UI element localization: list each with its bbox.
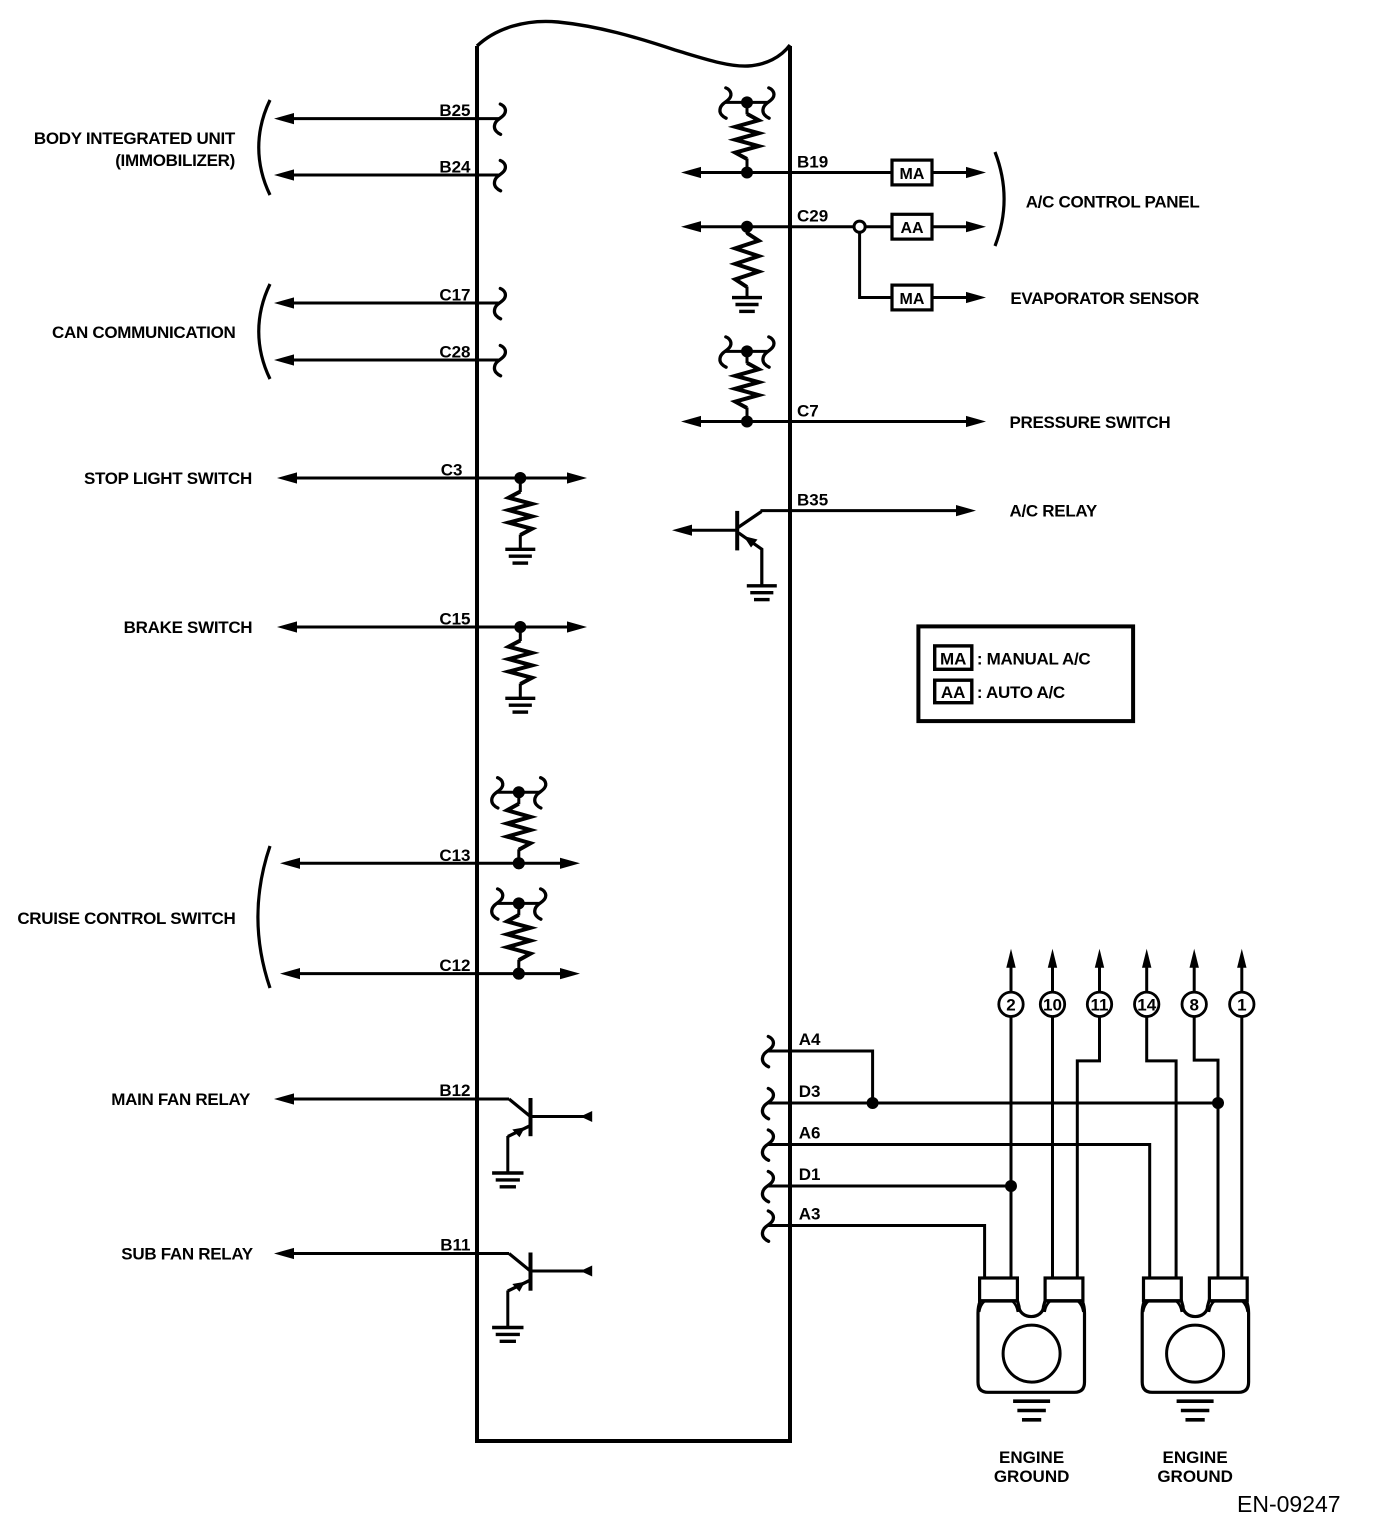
svg-text:AA: AA (941, 683, 966, 702)
pull-up resistor above C7 with break marks (720, 337, 774, 428)
brace for A/C CONTROL PANEL (995, 152, 1004, 246)
svg-text:B35: B35 (797, 491, 828, 510)
ground below C29 resistor (732, 298, 762, 312)
legend MA symbol box (935, 646, 972, 669)
pull-up resistor above C12 with break marks (492, 889, 546, 980)
engine ground lug 2 body (1142, 1301, 1248, 1392)
svg-text:C13: C13 (439, 846, 470, 865)
pin B11 wire sub fan relay (274, 1236, 509, 1260)
svg-text:SUB FAN RELAY: SUB FAN RELAY (121, 1245, 253, 1264)
svg-text:CRUISE CONTROL SWITCH: CRUISE CONTROL SWITCH (17, 909, 235, 928)
resistor on C29 to ground (735, 221, 758, 298)
ground below C15 resistor (505, 698, 535, 712)
terminal box on lug1 right (1045, 1278, 1084, 1312)
wire evaporator branch from C29 node (860, 232, 892, 297)
connector wire 8 with circled 8 (1182, 949, 1218, 1278)
pin B19 wire to A/C control panel (681, 153, 892, 179)
AA box on C29 wire (892, 214, 932, 239)
ECU main box outline (left, bottom, right edges) (477, 46, 790, 1441)
pin C17 wire CAN (274, 286, 505, 319)
pin A4 wire (762, 1030, 872, 1100)
svg-text:ENGINE: ENGINE (1163, 1448, 1228, 1467)
label STOP LIGHT SWITCH (84, 469, 252, 488)
pull-up resistor above B19 with break marks (720, 88, 774, 179)
svg-text:14: 14 (1137, 995, 1156, 1014)
pin C28 wire CAN (274, 343, 505, 376)
svg-text:A/C RELAY: A/C RELAY (1010, 502, 1098, 521)
legend AA symbol box (935, 680, 972, 703)
connector wire 11 with circled 11 (1077, 949, 1111, 1278)
svg-text:C12: C12 (439, 956, 470, 975)
MA box on evaporator wire (892, 285, 932, 310)
svg-text:STOP LIGHT SWITCH: STOP LIGHT SWITCH (84, 469, 252, 488)
pin D3 wire (762, 1082, 1218, 1119)
pin C3 wire stop light switch (277, 461, 587, 485)
svg-text:C3: C3 (441, 461, 463, 480)
svg-text:MA: MA (900, 166, 925, 183)
pull-up resistor above C13 with break marks (492, 778, 546, 870)
legend MA meaning (977, 650, 1091, 669)
label A/C RELAY (1010, 502, 1098, 521)
svg-text:BODY INTEGRATED UNIT: BODY INTEGRATED UNIT (34, 129, 236, 148)
connector wire 2 with up arrow and circled 2 (999, 949, 1023, 1278)
svg-text:MA: MA (900, 291, 925, 308)
ground symbol under lug 1 (1013, 1401, 1050, 1420)
pin B24 wire to body integrated unit (274, 158, 505, 191)
pin C29 wire to A/C control panel (681, 207, 854, 233)
svg-text:1: 1 (1237, 995, 1246, 1014)
brace for BODY INTEGRATED UNIT group (259, 100, 270, 195)
svg-text:MAIN FAN RELAY: MAIN FAN RELAY (111, 1090, 251, 1109)
svg-text:B11: B11 (440, 1236, 470, 1255)
label CRUISE CONTROL SWITCH (17, 909, 235, 928)
svg-text:10: 10 (1043, 995, 1062, 1014)
svg-text:B24: B24 (439, 158, 471, 177)
pin A6 wire (762, 1124, 1149, 1279)
svg-text:A3: A3 (799, 1205, 821, 1224)
connector wire 14 with circled 14 (1135, 949, 1177, 1278)
transistor Q2 sub fan relay driver (508, 1253, 592, 1328)
ground symbol under lug 2 (1177, 1401, 1214, 1420)
svg-text:A6: A6 (799, 1124, 821, 1143)
label ENGINE GROUND right (1157, 1448, 1233, 1486)
ECU box wavy top break line (477, 21, 790, 66)
legend AA meaning (977, 683, 1065, 702)
svg-text:11: 11 (1091, 995, 1109, 1014)
node open circle on C29 wire (854, 221, 865, 232)
svg-text:C29: C29 (797, 207, 828, 226)
label EVAPORATOR SENSOR (1010, 289, 1199, 308)
label MAIN FAN RELAY (111, 1090, 251, 1109)
svg-text:B19: B19 (797, 153, 828, 172)
ground for Q3 emitter (747, 586, 777, 600)
ground for Q1 emitter (492, 1173, 523, 1187)
pin B12 wire main fan relay (274, 1081, 509, 1105)
ground below C3 resistor (505, 549, 535, 563)
svg-text:AA: AA (900, 220, 924, 237)
pin A3 wire (762, 1205, 984, 1279)
transistor Q3 A/C relay driver (672, 511, 762, 586)
connector wire 10 with circled 10 (1040, 949, 1064, 1278)
terminal box on lug1 left (979, 1278, 1018, 1312)
svg-text:C7: C7 (797, 402, 819, 421)
pin B25 wire to body integrated unit (274, 101, 505, 134)
label A/C CONTROL PANEL (1026, 193, 1200, 212)
junction dot D1-col2 (1005, 1180, 1017, 1192)
pin C13 wire cruise control (280, 846, 580, 870)
brace for CAN COMMUNICATION group (259, 284, 270, 379)
label SUB FAN RELAY (121, 1245, 253, 1264)
transistor Q1 main fan relay driver (508, 1098, 592, 1173)
svg-text:CAN COMMUNICATION: CAN COMMUNICATION (52, 323, 235, 342)
svg-text:C17: C17 (439, 286, 470, 305)
label BODY INTEGRATED UNIT (IMMOBILIZER) (34, 129, 236, 170)
pin C12 wire cruise control (280, 956, 580, 980)
svg-text:MA: MA (940, 650, 966, 669)
svg-text:(IMMOBILIZER): (IMMOBILIZER) (115, 151, 235, 170)
legend box (918, 626, 1133, 721)
label CAN COMMUNICATION (52, 323, 235, 342)
junction dot D3-col8 (1212, 1097, 1224, 1109)
resistor on C3 to ground (509, 478, 532, 549)
svg-text:: AUTO A/C: : AUTO A/C (977, 683, 1065, 702)
svg-text:B12: B12 (439, 1081, 470, 1100)
ground for Q2 emitter (492, 1328, 523, 1342)
lug 2 bolt hole (1167, 1325, 1224, 1382)
pin C7 wire to pressure switch (681, 402, 986, 428)
svg-text:: MANUAL A/C: : MANUAL A/C (977, 650, 1091, 669)
wire evaporator MA box to arrow (932, 292, 986, 303)
svg-text:A/C CONTROL PANEL: A/C CONTROL PANEL (1026, 193, 1200, 212)
svg-text:2: 2 (1006, 995, 1015, 1014)
wire C29 circle to AA box (865, 225, 892, 228)
svg-text:D1: D1 (799, 1165, 821, 1184)
pin D1 wire (762, 1165, 1011, 1202)
MA box on B19 wire (892, 160, 932, 185)
wire B19 MA box to arrow (932, 167, 986, 178)
label PRESSURE SWITCH (1010, 413, 1171, 432)
label ENGINE GROUND left (994, 1448, 1070, 1486)
brace for CRUISE CONTROL SWITCH group (258, 846, 270, 988)
svg-text:A4: A4 (799, 1030, 821, 1049)
label BRAKE SWITCH (124, 618, 253, 637)
terminal box on lug2 right (1209, 1278, 1248, 1312)
connector wire 1 with circled 1 (1230, 949, 1254, 1278)
svg-text:EVAPORATOR SENSOR: EVAPORATOR SENSOR (1010, 289, 1199, 308)
svg-text:D3: D3 (799, 1082, 821, 1101)
engine ground lug 1 body (978, 1301, 1085, 1392)
svg-text:B25: B25 (439, 101, 470, 120)
svg-text:GROUND: GROUND (1157, 1467, 1233, 1486)
svg-text:GROUND: GROUND (994, 1467, 1070, 1486)
wire C29 AA box to arrow (932, 221, 986, 232)
lug 1 bolt hole (1003, 1325, 1060, 1382)
svg-text:C15: C15 (439, 610, 470, 629)
resistor on C15 to ground (509, 627, 532, 698)
svg-text:BRAKE SWITCH: BRAKE SWITCH (124, 618, 253, 637)
svg-text:C28: C28 (439, 343, 470, 362)
svg-text:PRESSURE SWITCH: PRESSURE SWITCH (1010, 413, 1171, 432)
junction dot A4-D3 (867, 1097, 879, 1109)
pin C15 wire brake switch (277, 610, 587, 634)
terminal box on lug2 left (1143, 1278, 1182, 1312)
svg-text:EN-09247: EN-09247 (1237, 1491, 1341, 1517)
svg-text:8: 8 (1189, 995, 1198, 1014)
svg-text:ENGINE: ENGINE (999, 1448, 1064, 1467)
pin B35 wire to A/C relay (761, 491, 977, 517)
figure number EN-09247 (1237, 1491, 1341, 1517)
